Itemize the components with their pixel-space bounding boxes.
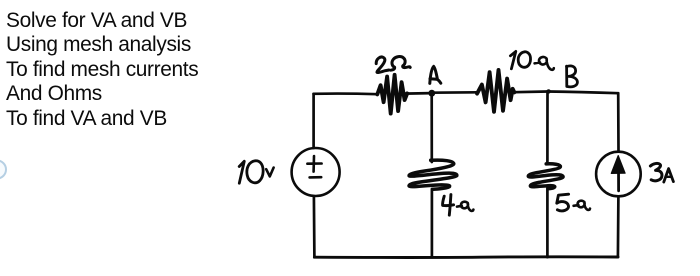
voltage source minus sign — [310, 176, 322, 179]
wire bottom — [314, 255, 618, 259]
wire left vertical upper — [312, 94, 315, 148]
label 2ohm — [376, 57, 410, 73]
label 4ohm — [443, 195, 474, 216]
wire right vertical lower — [617, 196, 620, 257]
wire branch B lower — [546, 188, 549, 257]
wire branch B upper — [546, 92, 549, 165]
resistor R4 5ohm coil — [528, 164, 563, 189]
resistor R3 4ohm coil — [409, 160, 457, 189]
wire top-left segment — [314, 92, 378, 95]
current source arrow head — [611, 156, 625, 174]
wire right vertical upper — [617, 93, 620, 151]
label 10ohm — [510, 51, 553, 69]
wire node A to 10ohm — [432, 91, 478, 94]
label A (node A) — [430, 66, 441, 83]
resistor R1 2ohm scribble — [377, 75, 407, 114]
voltage source V1 circle — [292, 148, 340, 196]
label 10v — [239, 161, 273, 183]
wire left vertical lower — [313, 197, 316, 257]
label 3A — [650, 163, 673, 182]
current source arrow shaft — [617, 162, 620, 191]
resistor R2 10ohm scribble — [477, 70, 514, 112]
current source I1 circle — [596, 152, 641, 197]
voltage source plus sign — [307, 156, 321, 172]
node A junction dot — [428, 90, 435, 97]
node B junction dot — [546, 89, 550, 93]
problem statement text — [6, 9, 198, 131]
label 5ohm — [557, 194, 590, 211]
wire branch A upper — [430, 93, 433, 162]
label B (node B) — [567, 66, 578, 87]
wire 2ohm to node A — [405, 92, 432, 95]
wire node B to top-right corner — [548, 92, 619, 94]
wire branch A lower — [431, 189, 434, 257]
avatar badge (partial, left edge) — [0, 161, 6, 179]
wire 10ohm to node B — [514, 90, 548, 93]
